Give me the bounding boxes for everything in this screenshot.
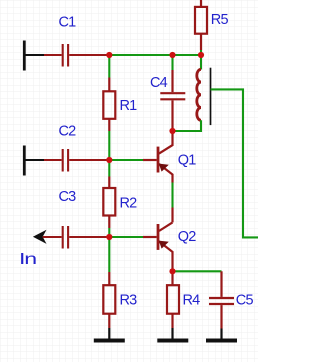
wire R2 to node F [108,228,110,237]
resistor R2 [103,177,115,229]
input terminal (C2 left) [23,146,45,176]
svg-text:In: In [19,251,36,268]
resistor R4 [167,271,179,328]
svg-text:R3: R3 [120,293,138,309]
wire coil bottom to node E [173,120,202,131]
junction node B (C4 top) [169,52,175,58]
ground (under R4) [157,328,188,343]
wire node D down to R2 [108,160,110,177]
wire Q1 emitter to Q2 collector [171,183,173,208]
transistor Q2 (PNP) [143,222,173,271]
wire node C down to coil [200,55,202,70]
svg-text:C3: C3 [59,189,77,205]
svg-text:R5: R5 [211,12,229,28]
capacitor C5 [209,271,234,328]
wire node D to Q1 base [109,159,143,161]
ground (under C5) [206,329,237,343]
svg-text:C1: C1 [59,15,77,31]
svg-text:R4: R4 [183,293,201,309]
capacitor C3 [63,226,108,249]
svg-text:Q2: Q2 [178,229,196,245]
junction node D (C2/R1/R2/Q1) [106,157,112,163]
svg-text:Q1: Q1 [178,152,196,168]
svg-text:C4: C4 [150,75,168,91]
wire node A to node C (top rail) [109,54,201,56]
svg-text:R2: R2 [120,195,138,211]
resistor R1 [103,78,115,132]
wire node F down to R3 [108,237,110,272]
inductor core line [210,68,212,125]
junction node G (Q2 emitter / R4 / C5) [169,268,175,274]
resistor R3 [103,272,115,328]
input arrow (In) [33,230,62,244]
junction node E (C4 bottom / Q1 collector) [169,128,175,134]
capacitor C4 [160,70,185,131]
capacitor C1 [44,44,108,67]
wire node G to C5 [175,270,222,272]
transistor Q1 (PNP) [143,131,173,183]
wire node B down to C4 [171,55,173,70]
capacitor C2 [44,149,108,172]
wire node F to Q2 base [109,236,143,238]
svg-text:R1: R1 [120,98,138,114]
input terminal (C1 left) [23,41,45,71]
wire core tap to right edge [211,89,259,237]
wire node A down to R1 [108,55,110,78]
inductor L1 (coil) [197,69,201,120]
ground (under R3) [94,328,125,343]
svg-text:C5: C5 [236,293,254,309]
resistor R5 [195,0,207,55]
junction node C (R5/coil) [198,52,204,58]
junction node F (C3/R2/R3/Q2) [106,234,112,240]
wire R1 to node D [108,131,110,160]
junction node A (C1/R1) [106,52,112,58]
svg-text:C2: C2 [59,124,77,140]
